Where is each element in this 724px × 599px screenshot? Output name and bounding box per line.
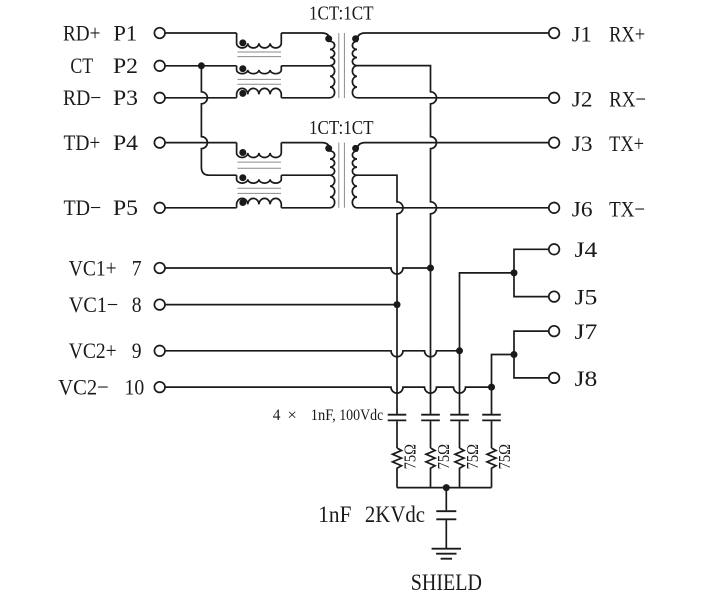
svg-text:J6: J6	[572, 196, 593, 221]
svg-text:P2: P2	[113, 53, 138, 78]
svg-text:7: 7	[132, 255, 142, 280]
svg-text:100Vdc: 100Vdc	[339, 405, 383, 424]
svg-text:4: 4	[273, 405, 281, 424]
svg-text:TX+: TX+	[609, 131, 644, 156]
svg-text:2KVdc: 2KVdc	[365, 502, 425, 527]
svg-text:1nF: 1nF	[318, 502, 351, 527]
svg-text:SHIELD: SHIELD	[411, 570, 482, 596]
svg-text:1CT:1CT: 1CT:1CT	[309, 117, 374, 139]
svg-text:CT: CT	[70, 53, 93, 78]
svg-text:J7: J7	[575, 319, 598, 344]
svg-text:8: 8	[132, 292, 142, 317]
svg-text:10: 10	[125, 374, 145, 399]
svg-text:VC1+: VC1+	[69, 255, 117, 280]
svg-text:J4: J4	[575, 237, 598, 262]
svg-text:J3: J3	[572, 131, 593, 156]
svg-text:TX−: TX−	[609, 196, 645, 221]
svg-text:J8: J8	[575, 366, 598, 391]
svg-text:×: ×	[287, 405, 297, 424]
svg-text:J2: J2	[572, 86, 593, 111]
svg-text:P5: P5	[113, 195, 138, 220]
svg-text:P3: P3	[113, 85, 138, 110]
svg-text:P1: P1	[113, 20, 137, 45]
svg-text:75Ω: 75Ω	[463, 444, 482, 469]
svg-text:1nF,: 1nF,	[311, 405, 336, 424]
svg-text:VC1−: VC1−	[69, 292, 119, 317]
svg-text:9: 9	[132, 338, 142, 363]
svg-text:RD+: RD+	[63, 20, 100, 45]
svg-text:75Ω: 75Ω	[434, 444, 453, 469]
svg-text:VC2−: VC2−	[58, 374, 109, 399]
svg-text:75Ω: 75Ω	[495, 444, 514, 469]
svg-text:RD−: RD−	[63, 85, 101, 110]
svg-text:P4: P4	[113, 130, 138, 155]
svg-text:RX−: RX−	[609, 86, 646, 111]
svg-text:VC2+: VC2+	[69, 338, 117, 363]
svg-text:TD+: TD+	[64, 130, 101, 155]
svg-text:J5: J5	[575, 285, 598, 310]
svg-text:J1: J1	[572, 22, 592, 47]
svg-text:75Ω: 75Ω	[400, 444, 419, 469]
svg-text:1CT:1CT: 1CT:1CT	[309, 3, 374, 25]
svg-text:RX+: RX+	[609, 22, 645, 47]
svg-text:TD−: TD−	[64, 195, 102, 220]
